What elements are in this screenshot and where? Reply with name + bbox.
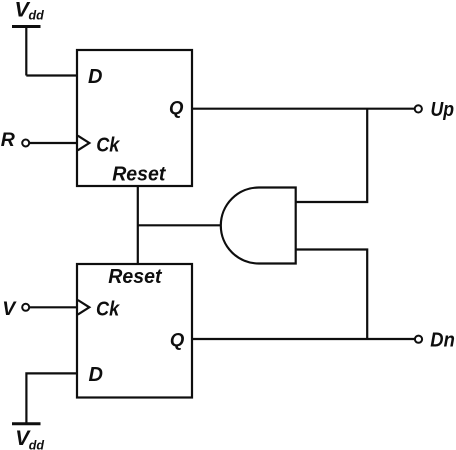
and-gate U3 — [221, 188, 296, 264]
svg-text:Dn: Dn — [430, 328, 455, 351]
svg-text:Ck: Ck — [96, 133, 121, 156]
wire AND output to Reset node — [138, 224, 221, 226]
svg-text:D: D — [89, 364, 103, 386]
node Dn terminal — [415, 336, 422, 343]
svg-text:R: R — [1, 129, 15, 151]
wire R to Ck of U1 — [30, 142, 78, 144]
power symbol Vdd (bottom) — [12, 422, 41, 425]
wire Q of U1 to Up — [192, 108, 415, 110]
svg-text:Reset: Reset — [112, 163, 166, 186]
D flip-flop U2 (bottom) — [77, 264, 192, 398]
label Vdd (top) — [15, 0, 45, 23]
clock wedge (U2) — [78, 300, 90, 315]
svg-text:Q: Q — [169, 97, 184, 118]
label Vdd (bottom) — [15, 427, 44, 450]
svg-text:V: V — [2, 298, 17, 320]
wire feedback from AND input B to Dn line — [296, 250, 367, 340]
svg-text:Up: Up — [431, 98, 455, 121]
power symbol Vdd (top) — [12, 27, 41, 76]
svg-text:dd: dd — [29, 438, 45, 450]
svg-text:Reset: Reset — [108, 265, 162, 288]
wire Q of U2 to Dn — [192, 338, 415, 340]
svg-text:D: D — [88, 66, 102, 88]
svg-text:dd: dd — [29, 9, 45, 23]
node R terminal — [22, 140, 29, 147]
svg-text:Ck: Ck — [96, 298, 121, 321]
wire Reset net between U1 and U2 — [137, 186, 139, 264]
wire D input of U1 from Vdd — [26, 74, 77, 76]
wire feedback from Up line to AND input A — [296, 109, 367, 202]
node V terminal — [22, 304, 29, 311]
wire D input of U2 from Vdd — [26, 373, 77, 423]
svg-text:Q: Q — [170, 329, 185, 350]
D flip-flop U1 (top) — [77, 50, 192, 186]
clock wedge (U1) — [78, 136, 90, 151]
wire V to Ck of U2 — [30, 306, 78, 308]
node Up terminal — [415, 105, 422, 112]
